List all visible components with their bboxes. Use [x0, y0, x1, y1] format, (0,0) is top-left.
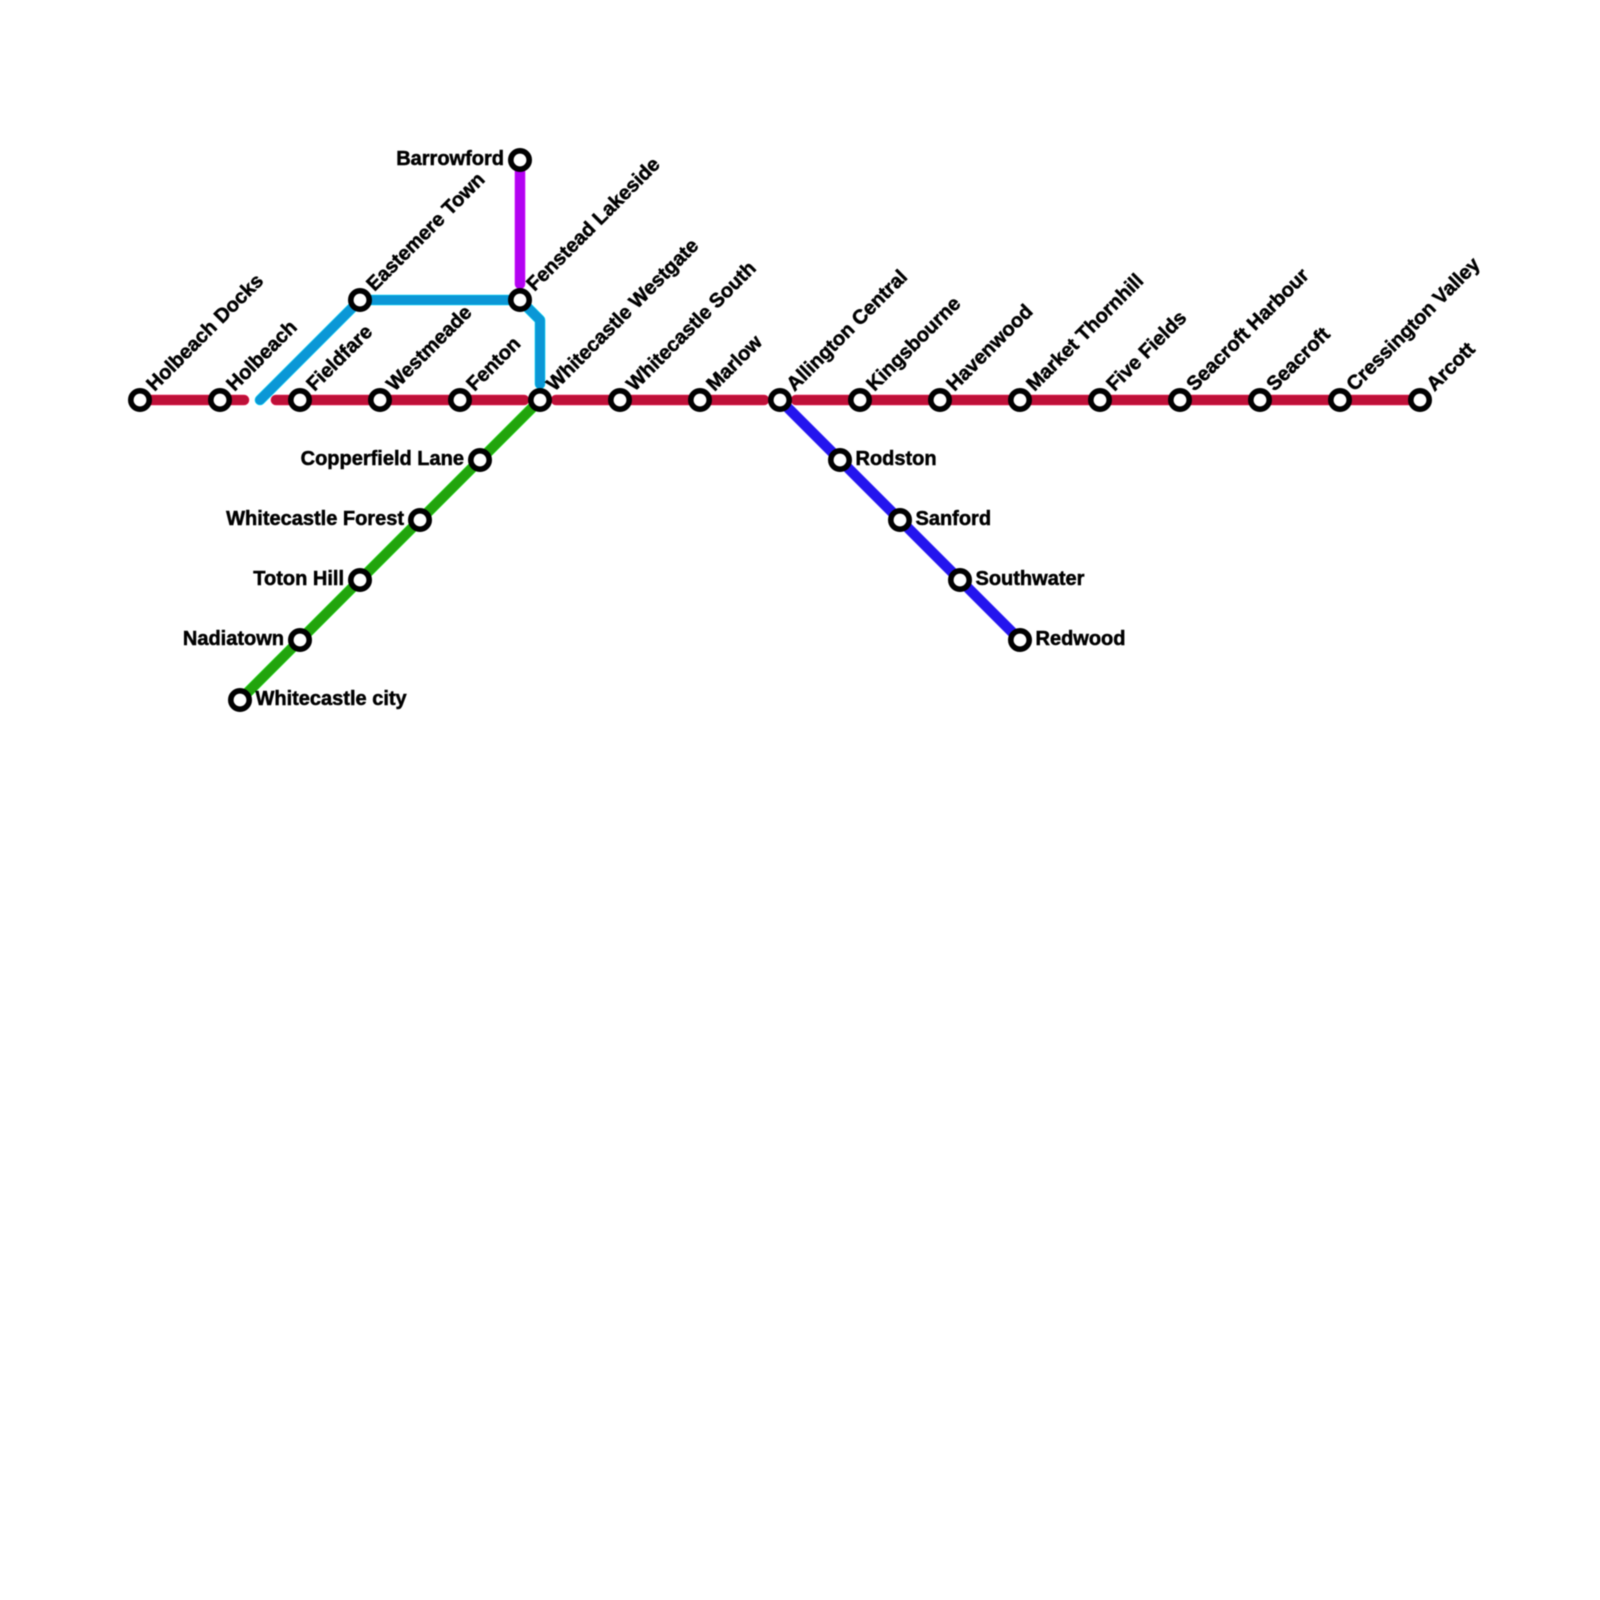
- cyan line (Eastemere branch), casing: [260, 300, 540, 400]
- red line (main east-west line), casing: [140, 395, 1420, 406]
- station Rodston: [831, 451, 849, 469]
- station Five Fields: [1091, 391, 1109, 409]
- svg-text:Toton Hill: Toton Hill: [253, 568, 344, 590]
- svg-text:Redwood: Redwood: [1036, 628, 1126, 650]
- station Holbeach Docks: [131, 391, 149, 409]
- station Sanford: [891, 511, 909, 529]
- station Holbeach: [211, 391, 229, 409]
- cyan line (Eastemere branch): [260, 300, 540, 400]
- station Barrowford: [511, 151, 529, 169]
- station Eastemere Town: [351, 291, 369, 309]
- station Whitecastle Westgate: [531, 391, 549, 409]
- svg-text:Nadiatown: Nadiatown: [183, 628, 284, 650]
- blue line (Redwood branch), casing: [780, 400, 1020, 640]
- red line (main east-west line): [140, 395, 1420, 405]
- station Toton Hill: [351, 571, 369, 589]
- svg-text:Copperfield Lane: Copperfield Lane: [301, 448, 464, 470]
- svg-text:Barrowford: Barrowford: [396, 148, 504, 170]
- station Seacroft: [1251, 391, 1269, 409]
- station Nadiatown: [291, 631, 309, 649]
- purple line (Barrowford spur): [515, 160, 525, 284]
- station Fenstead Lakeside: [511, 291, 529, 309]
- station Copperfield Lane: [471, 451, 489, 469]
- station Cressington Valley: [1331, 391, 1349, 409]
- station Fieldfare: [291, 391, 309, 409]
- station Kingsbourne: [851, 391, 869, 409]
- station Marlow: [691, 391, 709, 409]
- purple line (Barrowford spur), casing: [515, 160, 526, 284]
- green line (Whitecastle city branch), casing: [240, 400, 540, 700]
- station Fenton: [451, 391, 469, 409]
- station Southwater: [951, 571, 969, 589]
- station Westmeade: [371, 391, 389, 409]
- station Arcott: [1411, 391, 1429, 409]
- blue line (Redwood branch): [780, 400, 1020, 640]
- svg-text:Sanford: Sanford: [916, 508, 992, 530]
- station Redwood: [1011, 631, 1029, 649]
- station Whitecastle Forest: [411, 511, 429, 529]
- station Allington Central: [771, 391, 789, 409]
- svg-text:Whitecastle Forest: Whitecastle Forest: [226, 508, 404, 530]
- svg-text:Rodston: Rodston: [856, 448, 937, 470]
- svg-text:Whitecastle city: Whitecastle city: [256, 688, 408, 710]
- station Whitecastle South: [611, 391, 629, 409]
- station Whitecastle city: [231, 691, 249, 709]
- station Seacroft Harbour: [1171, 391, 1189, 409]
- green line (Whitecastle city branch): [240, 400, 540, 700]
- station Havenwood: [931, 391, 949, 409]
- svg-text:Southwater: Southwater: [976, 568, 1085, 590]
- station Market Thornhill: [1011, 391, 1029, 409]
